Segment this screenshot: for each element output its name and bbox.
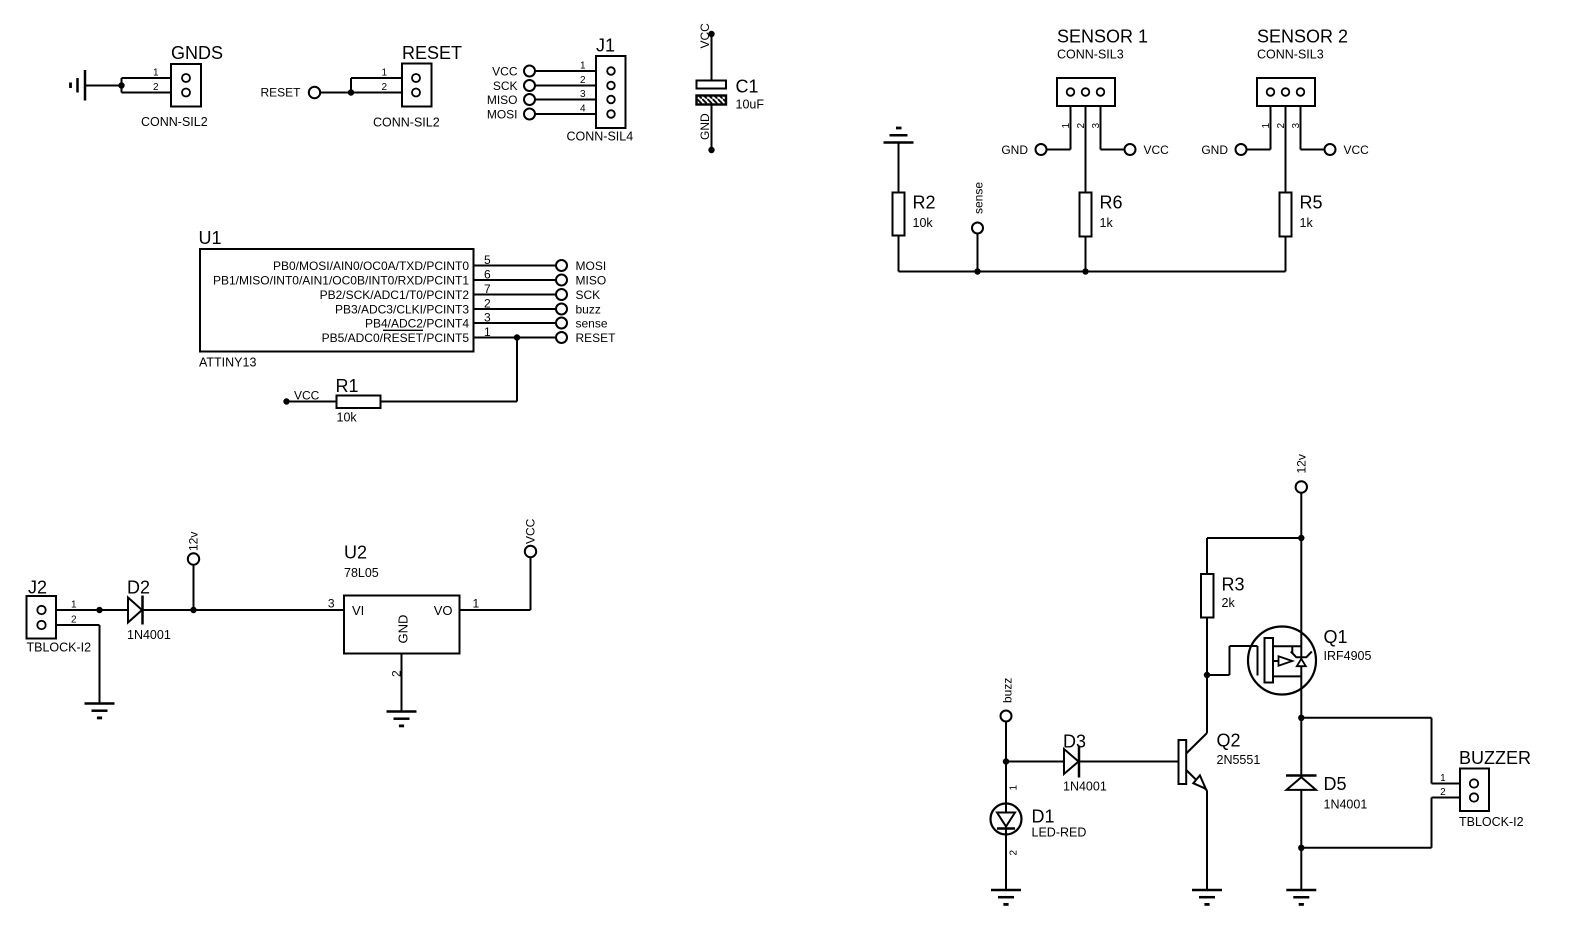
svg-text:2: 2 [1076, 123, 1087, 129]
junction Q1 drain to buzzer [1298, 715, 1304, 721]
resistor R1 [337, 396, 381, 409]
svg-text:2: 2 [580, 75, 586, 86]
junction on RESET wire at U1 pin 1 [514, 334, 520, 340]
junction at J2 pin1 net [96, 607, 102, 613]
svg-text:SENSOR 2: SENSOR 2 [1257, 27, 1348, 47]
svg-text:CONN-SIL3: CONN-SIL3 [1257, 48, 1324, 62]
wire junction to D3 anode [1006, 761, 1064, 763]
svg-text:2k: 2k [1222, 596, 1236, 610]
svg-text:VO: VO [434, 603, 453, 618]
wire junction to RESET pin 1 [351, 78, 416, 93]
wire VCC to C1 top plate [711, 34, 713, 81]
svg-text:5: 5 [484, 253, 491, 267]
svg-text:1: 1 [484, 325, 491, 339]
wire ground to R2 [898, 143, 900, 193]
svg-text:2: 2 [1276, 123, 1287, 129]
svg-text:SCK: SCK [493, 79, 518, 93]
svg-text:PB3/ADC3/CLKI/PCINT3: PB3/ADC3/CLKI/PCINT3 [335, 302, 469, 316]
terminal 12v at D2 [188, 553, 199, 564]
wire J1 pin 1 [530, 70, 612, 72]
svg-text:2N5551: 2N5551 [1217, 753, 1261, 767]
svg-text:78L05: 78L05 [344, 566, 379, 580]
svg-text:IRF4905: IRF4905 [1324, 649, 1372, 663]
connector SENSOR 1 CONN-SIL3 [1057, 78, 1115, 106]
connector BUZZER TBLOCK-I2 [1460, 769, 1489, 812]
svg-text:1k: 1k [1100, 216, 1114, 230]
terminal VCC at J1 [524, 66, 535, 77]
svg-text:PB5/ADC0/RESET/PCINT5: PB5/ADC0/RESET/PCINT5 [322, 331, 470, 345]
svg-text:3: 3 [484, 311, 491, 325]
diode D5 1N4001 (flyback) [1286, 776, 1317, 790]
wire R2 to bus [898, 236, 900, 272]
terminal GND at SENSOR 1 [1036, 144, 1047, 155]
terminal 12v at Q1 [1296, 481, 1307, 492]
svg-text:GND: GND [698, 113, 712, 140]
svg-text:2: 2 [1440, 787, 1446, 798]
svg-text:Q1: Q1 [1324, 627, 1348, 647]
svg-text:CONN-SIL2: CONN-SIL2 [141, 115, 208, 129]
svg-text:4: 4 [580, 104, 586, 115]
svg-text:CONN-SIL3: CONN-SIL3 [1057, 48, 1124, 62]
svg-text:7: 7 [484, 282, 491, 296]
transistor Q1 IRF4905 [1248, 627, 1316, 695]
wire U2 GND pin to ground [401, 654, 403, 712]
wire RESET terminal to junction [320, 92, 351, 94]
terminal RESET [309, 87, 320, 98]
svg-text:3: 3 [580, 89, 586, 100]
svg-text:6: 6 [484, 268, 491, 282]
svg-text:U2: U2 [344, 543, 367, 563]
junction on RESET net [348, 89, 354, 95]
terminal SCK at U1 [556, 289, 567, 300]
regulator U2 78L05 body [344, 596, 460, 654]
connector RESET CONN-SIL2 [402, 64, 432, 107]
junction sense-bus [974, 268, 980, 274]
junction on GNDS net [118, 82, 124, 88]
svg-text:12v: 12v [1294, 454, 1308, 473]
svg-text:RESET: RESET [260, 86, 301, 100]
wire 12v terminal down [193, 565, 195, 611]
svg-text:PB0/MOSI/AIN0/OC0A/TXD/PCINT0: PB0/MOSI/AIN0/OC0A/TXD/PCINT0 [273, 259, 469, 273]
connector J2 TBLOCK-I2 [27, 596, 57, 639]
svg-text:10k: 10k [913, 216, 934, 230]
terminal VCC at SENSOR 1 [1125, 144, 1136, 155]
wire buzz terminal down [1005, 722, 1007, 762]
terminal MISO at J1 [524, 94, 535, 105]
wire buzzer pin2 return [1301, 798, 1474, 848]
svg-text:sense: sense [576, 316, 608, 330]
svg-text:1: 1 [1061, 123, 1072, 129]
wire junction to Q1 gate [1207, 646, 1258, 675]
svg-text:3: 3 [1291, 123, 1302, 129]
ground (up-pointing) above R2 [884, 128, 914, 143]
capacitor C1 bottom plate (hatched) [697, 96, 727, 105]
svg-text:TBLOCK-I2: TBLOCK-I2 [1459, 815, 1524, 829]
svg-text:2: 2 [381, 82, 387, 93]
wire SENSOR 2 pin1 to GND terminal [1241, 95, 1271, 150]
svg-text:MOSI: MOSI [576, 259, 607, 273]
svg-text:D3: D3 [1063, 732, 1086, 752]
svg-text:12v: 12v [187, 532, 201, 551]
capacitor C1 top plate [697, 81, 727, 89]
ground below J2 [85, 704, 115, 718]
svg-text:PB1/MISO/INT0/AIN1/OC0B/INT0/R: PB1/MISO/INT0/AIN1/OC0B/INT0/RXD/PCINT1 [213, 273, 469, 287]
svg-text:LED-RED: LED-RED [1032, 826, 1087, 840]
svg-text:10k: 10k [337, 411, 358, 425]
transistor Q2 2N5551 [1179, 740, 1208, 791]
wire 12v rail down through Q1 [1300, 493, 1302, 890]
wire J1 pin 4 [530, 113, 612, 115]
wire junction to D2 anode [100, 609, 129, 611]
LED D1 LED-RED [991, 804, 1022, 835]
wire SENSOR 1 pin2 to R6 [1085, 95, 1087, 193]
wire R5 to bus [1285, 237, 1287, 272]
svg-text:1: 1 [71, 600, 77, 611]
svg-text:C1: C1 [736, 77, 759, 97]
terminal GND at SENSOR 2 [1236, 144, 1247, 155]
svg-text:1N4001: 1N4001 [1324, 798, 1368, 812]
svg-text:10uF: 10uF [736, 98, 765, 112]
wire junction to RESET pin 2 [351, 92, 416, 94]
svg-text:1: 1 [1261, 123, 1272, 129]
svg-text:1: 1 [1440, 773, 1446, 784]
wire Q2 emitter to ground [1206, 791, 1208, 891]
svg-text:VCC: VCC [492, 64, 518, 78]
connector GNDS CONN-SIL2 [171, 64, 201, 107]
wire D2 cathode to 12v junction [143, 609, 194, 611]
diode D3 1N4001 [1064, 746, 1079, 778]
wire D2 to U2 VI [194, 609, 345, 611]
wire R1 to RESET junction [381, 401, 518, 403]
terminal sense [972, 223, 983, 234]
svg-text:2: 2 [153, 82, 159, 93]
svg-text:D2: D2 [127, 578, 150, 598]
resistor R2 [893, 193, 905, 236]
svg-text:RESET: RESET [576, 331, 617, 345]
wire J1 pin 2 [530, 85, 612, 87]
wire R6 to bus [1085, 237, 1087, 272]
bus wire sensors bottom [899, 271, 1286, 273]
svg-text:sense: sense [972, 182, 986, 214]
ground below D1 [991, 890, 1021, 904]
terminal MOSI at J1 [524, 109, 535, 120]
svg-text:VI: VI [352, 603, 364, 618]
svg-text:VCC: VCC [524, 518, 538, 544]
svg-text:GND: GND [1201, 143, 1228, 157]
svg-text:TBLOCK-I2: TBLOCK-I2 [27, 641, 92, 655]
svg-text:R5: R5 [1300, 193, 1323, 213]
VCC node at R1 [283, 398, 289, 404]
wire SENSOR 1 pin1 to GND terminal [1041, 95, 1071, 150]
svg-text:1N4001: 1N4001 [1063, 780, 1107, 794]
svg-text:VCC: VCC [1144, 143, 1170, 157]
svg-text:Q2: Q2 [1217, 731, 1241, 751]
wire SENSOR 1 pin3 to VCC terminal [1101, 95, 1131, 150]
svg-text:1k: 1k [1300, 216, 1314, 230]
svg-text:MOSI: MOSI [487, 107, 518, 121]
ground below U2 [387, 712, 417, 726]
svg-text:R2: R2 [913, 193, 936, 213]
wire U1 pin 5 [474, 265, 562, 267]
resistor R3 [1201, 574, 1214, 618]
wire junction to GNDS pin 1 [122, 78, 187, 86]
junction buzz-D3-D1 [1003, 758, 1009, 764]
svg-text:R6: R6 [1100, 193, 1123, 213]
svg-text:RESET: RESET [402, 43, 462, 63]
terminal RESET at U1 [556, 332, 567, 343]
svg-text:GNDS: GNDS [171, 43, 223, 63]
wire U1 pin 6 [474, 279, 562, 281]
svg-text:buzz: buzz [1001, 678, 1015, 703]
wire VCC to R1 [287, 401, 337, 403]
svg-text:1: 1 [153, 68, 159, 79]
svg-text:PB4/ADC2/PCINT4: PB4/ADC2/PCINT4 [365, 316, 469, 330]
svg-text:VCC: VCC [294, 389, 320, 403]
svg-text:BUZZER: BUZZER [1459, 748, 1531, 768]
svg-text:J2: J2 [28, 578, 47, 598]
svg-text:D5: D5 [1324, 774, 1347, 794]
wire junction down through D1 to ground [1005, 762, 1007, 891]
wire C1 bottom plate to GND [711, 105, 713, 151]
junction 12v-D2 [190, 607, 196, 613]
svg-text:VCC: VCC [698, 23, 712, 49]
svg-text:1: 1 [473, 597, 480, 611]
wire J2 pin2 to ground [42, 625, 100, 704]
terminal sense at U1 [556, 318, 567, 329]
wire 12v to R3 top [1207, 538, 1301, 574]
wire U1 pin1 junction down to R1 [516, 338, 518, 402]
terminal MOSI at U1 [556, 260, 567, 271]
terminal MISO at U1 [556, 275, 567, 286]
junction R3-gate-collector [1204, 672, 1210, 678]
svg-text:1: 1 [580, 61, 586, 72]
svg-text:MISO: MISO [487, 93, 518, 107]
terminal VCC at U2 [525, 546, 536, 557]
wire U1 pin 2 [474, 308, 562, 310]
svg-text:ATTINY13: ATTINY13 [199, 356, 256, 370]
overline on RESET of U1 pin PB5 [383, 329, 423, 331]
ground below D5 [1286, 890, 1316, 904]
svg-text:R1: R1 [336, 376, 359, 396]
svg-text:2: 2 [484, 297, 491, 311]
resistor R6 [1080, 193, 1092, 237]
resistor R5 [1280, 193, 1292, 237]
op IC U1 ATTINY13 body [200, 249, 474, 352]
svg-text:2: 2 [390, 670, 404, 677]
wire D3 cathode to Q2 base [1079, 761, 1179, 763]
wire ground to junction [85, 85, 122, 87]
svg-text:D1: D1 [1032, 807, 1055, 827]
connector SENSOR 2 CONN-SIL3 [1257, 78, 1315, 106]
svg-text:buzz: buzz [576, 302, 601, 316]
svg-text:CONN-SIL4: CONN-SIL4 [567, 130, 634, 144]
terminal buzz at U1 [556, 304, 567, 315]
junction R6-bus [1082, 268, 1088, 274]
terminal SCK at J1 [524, 80, 535, 91]
GND node below C1 [708, 147, 714, 153]
terminal VCC at SENSOR 2 [1325, 144, 1336, 155]
svg-text:VCC: VCC [1344, 143, 1370, 157]
junction D5 bottom [1298, 845, 1304, 851]
svg-text:MISO: MISO [576, 273, 607, 287]
diode D2 1N4001 [128, 596, 143, 625]
svg-text:1N4001: 1N4001 [127, 628, 171, 642]
wire SENSOR 2 pin3 to VCC terminal [1301, 95, 1331, 150]
ground (left-pointing) at GNDS [71, 70, 86, 101]
wire sense to bus [977, 234, 979, 272]
svg-text:3: 3 [328, 597, 335, 611]
terminal buzz [1001, 711, 1012, 722]
ground below Q2 [1192, 890, 1222, 904]
svg-text:1: 1 [1009, 785, 1020, 791]
wire U1 pin 3 [474, 322, 562, 324]
wire junction to GNDS pin 2 [122, 86, 187, 93]
VCC node above C1 [708, 31, 714, 37]
wire U1 pin 7 [474, 294, 562, 296]
svg-text:SCK: SCK [576, 288, 601, 302]
svg-text:U1: U1 [199, 228, 222, 248]
wire Q2 collector [1186, 675, 1207, 754]
svg-text:PB2/SCK/ADC1/T0/PCINT2: PB2/SCK/ADC1/T0/PCINT2 [320, 288, 470, 302]
svg-text:GND: GND [1001, 143, 1028, 157]
svg-text:SENSOR 1: SENSOR 1 [1057, 27, 1148, 47]
svg-text:CONN-SIL2: CONN-SIL2 [373, 116, 440, 130]
svg-text:2: 2 [71, 615, 77, 626]
svg-text:J1: J1 [596, 36, 615, 56]
svg-text:GND: GND [396, 615, 411, 644]
svg-text:R3: R3 [1222, 575, 1245, 595]
wire Q1 drain to buzzer pin1 [1301, 718, 1474, 784]
svg-text:1: 1 [381, 68, 387, 79]
wire R3 bottom to junction [1206, 618, 1208, 676]
wire U1 pin 1 [474, 337, 562, 339]
svg-text:3: 3 [1091, 123, 1102, 129]
wire U2 VO to VCC terminal [460, 557, 531, 610]
wire SENSOR 2 pin2 to R5 [1285, 95, 1287, 193]
connector J1 CONN-SIL4 [596, 56, 626, 128]
svg-text:2: 2 [1009, 850, 1020, 856]
wire J2 pin1 to D2 [42, 609, 100, 611]
junction 12v-R3 [1298, 535, 1304, 541]
wire J1 pin 3 [530, 99, 612, 101]
